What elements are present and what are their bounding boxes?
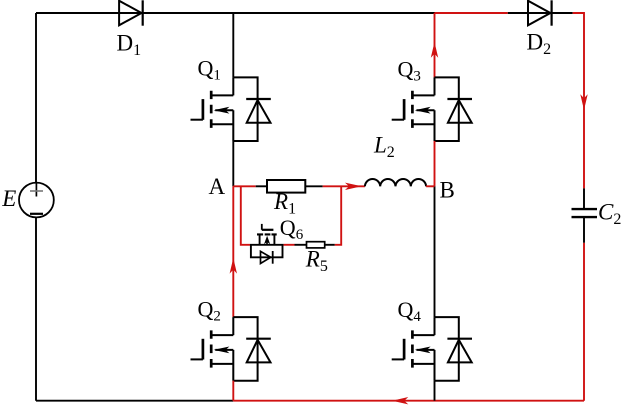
resistor R5 — [307, 242, 325, 248]
wire: R1 right lead (black) — [305, 185, 322, 187]
wire: snubber right rise (red) — [335, 186, 341, 245]
Q6 diode triangle — [261, 251, 271, 263]
wire: R1 to inductor (red) — [323, 185, 365, 187]
wire: top right corner + right rail upper (red) — [573, 13, 584, 188]
svg-text:L2: L2 — [373, 133, 395, 162]
svg-text:A: A — [209, 174, 226, 199]
svg-text:C2: C2 — [598, 199, 621, 228]
inductor L2 — [365, 179, 426, 186]
transistor Q1 — [191, 77, 271, 141]
wire: Q3 bottom to node B (red) — [434, 141, 436, 186]
resistor R1 — [267, 180, 305, 193]
wire: right rail lower (red) — [583, 243, 585, 401]
Q6 diode bar — [272, 251, 274, 264]
wire: top rail D2 leads (black) — [508, 12, 573, 14]
source E minus sign — [30, 213, 43, 215]
wire: A to R1 (red) — [233, 185, 255, 187]
svg-text:B: B — [440, 177, 455, 202]
wire: R1 left lead (black) — [256, 185, 267, 187]
wire: bottom rail right (red) — [233, 400, 584, 402]
wire: node A to Q2 (red) — [232, 186, 234, 317]
wire: R5 left lead (black) — [295, 244, 307, 246]
wire: Q1 bottom to node A (black) — [232, 141, 234, 186]
current arrow A-B (right) — [345, 183, 362, 190]
wire: bottom rail left (black) — [36, 400, 233, 402]
current arrow Q3 (up) — [431, 42, 438, 58]
wire: top rail mid (red) — [435, 12, 508, 14]
wire: Q1 top stub (black) — [232, 13, 234, 77]
svg-text:Q6: Q6 — [280, 215, 304, 243]
svg-text:Q1: Q1 — [198, 55, 221, 83]
source E circle — [19, 183, 54, 218]
wire: left rail lower (black) — [35, 217, 37, 401]
transistor Q4 — [392, 317, 472, 381]
wire: top rail left (black) — [36, 12, 435, 14]
wire: R5 right lead (black) — [325, 244, 335, 246]
current arrow bottom (left) — [392, 397, 408, 404]
transistor Q3 — [392, 77, 472, 141]
current arrow right rail (down) — [580, 94, 587, 110]
wire: Q6 to R5 (red) — [284, 244, 295, 246]
capacitor C2 plates — [572, 209, 598, 217]
svg-text:D1: D1 — [117, 30, 142, 59]
transistor Q6 gate bar — [262, 229, 274, 231]
wire: right rail capacitor stubs (black) — [583, 188, 585, 242]
svg-text:Q2: Q2 — [198, 297, 221, 325]
transistor Q2 — [191, 317, 271, 381]
transistor Q6 gate stub — [261, 224, 263, 230]
current arrow A-Q2 (up) — [230, 258, 237, 274]
transistor Q6 leads — [260, 234, 275, 244]
source E plus sign — [35, 183, 37, 197]
svg-text:D2: D2 — [527, 30, 552, 59]
svg-text:R5: R5 — [305, 247, 328, 276]
wire: left rail upper (black) — [35, 13, 37, 183]
svg-text:E: E — [1, 186, 16, 211]
wire: Q3 top stub (red) — [434, 13, 436, 77]
diode D2 — [528, 0, 552, 25]
wire: Q2 bottom stub (red) — [232, 381, 234, 401]
svg-text:Q4: Q4 — [398, 297, 422, 325]
wire: Q6 branch base (black) — [250, 244, 284, 246]
diode D1 — [119, 0, 143, 25]
wire: Q4 bottom stub (black) — [434, 381, 436, 401]
svg-text:Q3: Q3 — [398, 57, 421, 85]
transistor Q6 channel bars — [257, 233, 277, 235]
wire: inductor to node B (red) — [426, 185, 434, 187]
Q6 parallel diode loop — [251, 245, 283, 257]
wire: snubber left drop (red) — [241, 186, 250, 245]
transistor Q6 channel arrow (up) — [264, 236, 270, 244]
wire: node B to Q4 (black) — [434, 186, 436, 317]
